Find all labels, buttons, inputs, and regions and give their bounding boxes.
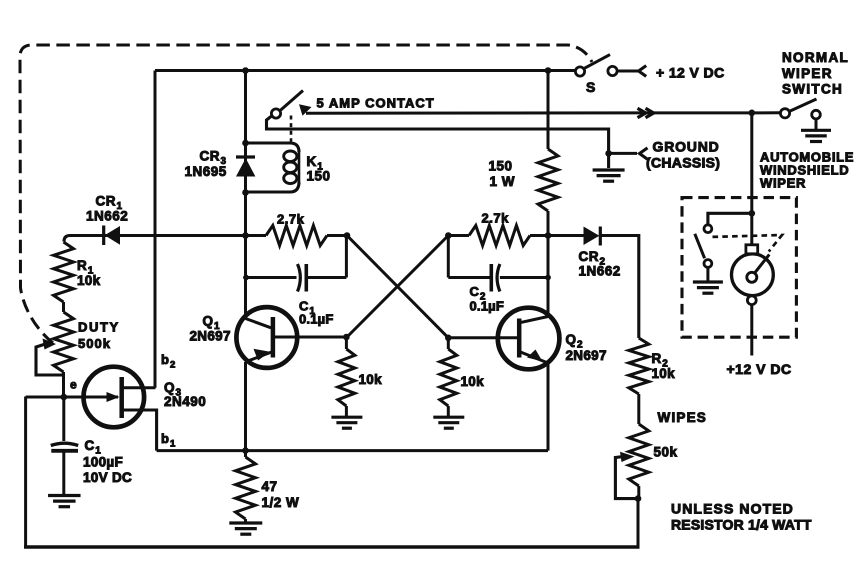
svg-text:2N697: 2N697 [566,348,607,363]
svg-text:RESISTOR 1/4 WATT: RESISTOR 1/4 WATT [671,517,812,533]
svg-text:SWITCH: SWITCH [782,82,843,97]
svg-text:50k: 50k [654,445,678,460]
svg-text:5 AMP CONTACT: 5 AMP CONTACT [317,96,435,111]
svg-text:WIPER: WIPER [760,176,806,191]
svg-text:S: S [586,79,595,95]
svg-text:47: 47 [262,479,278,494]
svg-text:DUTY: DUTY [78,320,120,335]
svg-text:WIPER: WIPER [782,66,833,81]
svg-text:0.1µF: 0.1µF [299,312,334,327]
svg-text:1N662: 1N662 [579,264,621,279]
svg-text:WIPES: WIPES [658,410,708,425]
svg-text:+ 12 V DC: + 12 V DC [656,65,725,81]
svg-text:10k: 10k [77,273,101,288]
svg-text:100µF: 100µF [83,455,123,470]
svg-text:NORMAL: NORMAL [782,50,849,65]
svg-text:2N697: 2N697 [190,329,231,344]
svg-text:UNLESS NOTED: UNLESS NOTED [671,501,794,517]
svg-text:0.1µF: 0.1µF [470,299,505,314]
svg-text:2N490: 2N490 [164,394,206,409]
svg-text:500k: 500k [78,336,111,351]
svg-text:+12 V DC: +12 V DC [727,361,792,377]
svg-text:e: e [70,378,77,392]
svg-text:2.7k: 2.7k [277,212,305,227]
svg-text:1/2 W: 1/2 W [262,495,300,510]
svg-text:10k: 10k [359,372,383,387]
svg-text:150: 150 [489,159,513,174]
svg-text:1N662: 1N662 [86,209,128,224]
svg-text:2.7k: 2.7k [482,211,510,226]
svg-text:10k: 10k [652,366,676,381]
svg-text:GROUND: GROUND [653,139,720,155]
svg-text:1N695: 1N695 [185,164,227,179]
svg-text:10k: 10k [461,374,485,389]
svg-text:1 W: 1 W [490,174,516,189]
svg-text:150: 150 [307,169,331,184]
svg-text:10V DC: 10V DC [83,470,132,485]
svg-text:(CHASSIS): (CHASSIS) [646,155,720,171]
